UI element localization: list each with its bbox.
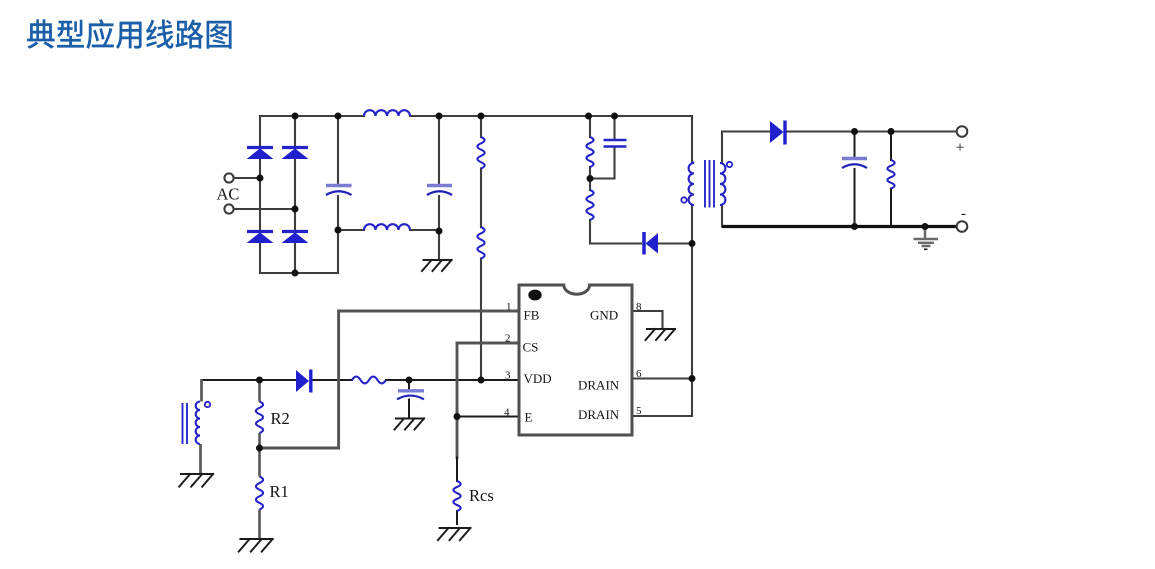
node output earth — [922, 223, 929, 230]
node drain pin6 — [689, 375, 696, 382]
AC terminal lower — [224, 204, 233, 213]
op-amp U1 controller IC — [519, 285, 632, 435]
wire E pin stub — [457, 416, 519, 418]
diode output rectifier — [770, 121, 784, 143]
wire top rail — [260, 116, 692, 162]
resistor Rcs — [453, 481, 460, 511]
node clamp to drain — [689, 240, 696, 247]
resistor R2 — [256, 402, 263, 433]
output terminal minus — [957, 221, 968, 232]
svg-text:GND: GND — [590, 308, 618, 323]
wire R1 leads — [258, 448, 261, 539]
diode clamp — [642, 232, 646, 255]
svg-text:AC: AC — [217, 185, 240, 204]
svg-text:6: 6 — [636, 368, 642, 380]
wire pin5 stub — [632, 415, 692, 417]
svg-text:+: + — [956, 140, 965, 157]
ground under Rcs — [438, 528, 471, 540]
node VDD startup — [478, 377, 485, 384]
wire VDD cap branch — [408, 380, 410, 419]
wire clamp diode to drain — [659, 242, 693, 244]
wire pin6 stub — [632, 377, 692, 379]
aux core — [183, 403, 188, 444]
svg-text:1: 1 — [506, 301, 512, 313]
svg-text:-: - — [961, 206, 966, 222]
node output cap bottom — [851, 223, 858, 230]
ground under R1 — [239, 539, 273, 552]
node R2 R1 FB — [256, 445, 263, 452]
node C1 lower link — [335, 227, 342, 234]
node output cap top — [851, 128, 858, 135]
wire R2 leads — [258, 380, 261, 448]
node top rail at snubber R — [585, 113, 592, 120]
wire CS route — [457, 343, 519, 458]
earth ground output — [924, 227, 927, 239]
node snubber join — [587, 175, 594, 182]
node top rail at C2 — [436, 113, 443, 120]
svg-text:FB: FB — [524, 308, 540, 323]
node top rail at right bridge — [292, 113, 299, 120]
resistor snubber R lower — [586, 190, 593, 220]
svg-text:VDD: VDD — [524, 371, 552, 386]
svg-text:4: 4 — [504, 407, 510, 419]
resistor R1 — [256, 477, 263, 510]
wire drain line — [691, 205, 693, 416]
node CS E junction — [454, 413, 461, 420]
svg-text:CS: CS — [523, 340, 539, 355]
diode D1 bridge upper-left — [247, 146, 273, 149]
capacitor C2 — [427, 184, 452, 188]
capacitor VDD — [398, 389, 424, 392]
node aux to R2 — [256, 377, 263, 384]
node top rail at startup chain — [478, 113, 485, 120]
wire output bottom rail — [722, 225, 957, 228]
node bottom rail — [292, 270, 299, 277]
wire bridge right branch — [294, 116, 296, 273]
ground at GND pin — [646, 329, 676, 340]
svg-text:5: 5 — [636, 405, 642, 417]
wire snubber lower — [590, 179, 641, 244]
svg-text:8: 8 — [636, 301, 642, 313]
phase dot secondary — [727, 162, 732, 167]
node AC N — [292, 206, 299, 213]
wire secondary bottom — [721, 205, 723, 227]
svg-text:3: 3 — [505, 370, 511, 382]
capacitor snubber — [604, 140, 627, 147]
svg-text:E: E — [525, 410, 533, 425]
transformer T1 secondary — [720, 163, 725, 205]
svg-text:2: 2 — [505, 333, 511, 345]
output terminal plus — [957, 126, 968, 137]
resistor VDD series — [352, 377, 386, 384]
resistor startup lower — [477, 227, 484, 259]
diode VDD supply — [296, 370, 309, 392]
phase dot aux — [205, 402, 210, 407]
node top rail at snubber C — [611, 113, 618, 120]
pin1 index dot — [528, 290, 541, 301]
wire second cap branch — [438, 116, 440, 260]
wire bottom rail of bridge — [260, 272, 338, 274]
node top rail at C1 — [335, 113, 342, 120]
phase dot primary — [681, 197, 686, 202]
wire startup chain — [480, 116, 482, 380]
resistor startup upper — [477, 137, 484, 169]
ground under C2 — [422, 260, 452, 271]
node VDD cap — [406, 377, 413, 384]
ground under VDD cap — [395, 419, 425, 430]
title 典型应用线路图 — [27, 19, 232, 49]
capacitor output — [842, 157, 867, 161]
diode D3 bridge lower-left — [247, 230, 273, 233]
transformer T1 primary — [689, 162, 694, 205]
svg-text:Rcs: Rcs — [469, 486, 494, 505]
wire secondary top to output — [722, 132, 957, 163]
wire snubber R branch — [589, 116, 591, 179]
wire AC input N — [234, 208, 296, 210]
wire bridge left branch — [259, 116, 261, 273]
wire snubber C branch — [590, 116, 615, 179]
wire FB route — [260, 311, 520, 448]
wire GND pin8 route — [632, 311, 663, 329]
node C2 lower link — [436, 228, 443, 235]
svg-text:R1: R1 — [270, 482, 289, 501]
wire output cap branch — [854, 132, 856, 227]
inductor L2 lower filter — [364, 224, 410, 230]
wire AC input L — [234, 177, 261, 179]
svg-text:DRAIN: DRAIN — [578, 407, 620, 422]
node AC L — [257, 175, 264, 182]
capacitor bulk C1 — [326, 184, 352, 188]
resistor snubber R upper — [586, 137, 593, 167]
wire output resistor branch — [890, 132, 892, 227]
wire bulk cap branch — [337, 116, 339, 273]
transformer aux winding — [196, 402, 200, 445]
inductor L1 top filter — [364, 110, 410, 116]
wire lower filter link — [338, 229, 439, 231]
ground under aux — [179, 474, 213, 487]
diode D4 bridge lower-right — [282, 230, 308, 233]
AC terminal upper — [224, 173, 233, 182]
wire aux winding top lead — [203, 379, 260, 381]
svg-text:R2: R2 — [271, 409, 290, 428]
diode D2 bridge upper-right — [282, 146, 308, 149]
node output R top — [888, 128, 895, 135]
wire VDD line — [260, 379, 520, 381]
wire aux winding bottom — [199, 444, 202, 474]
resistor output load — [887, 160, 894, 188]
svg-text:DRAIN: DRAIN — [578, 378, 620, 393]
wire CS to Rcs — [456, 458, 458, 525]
transformer T1 core — [705, 160, 714, 208]
